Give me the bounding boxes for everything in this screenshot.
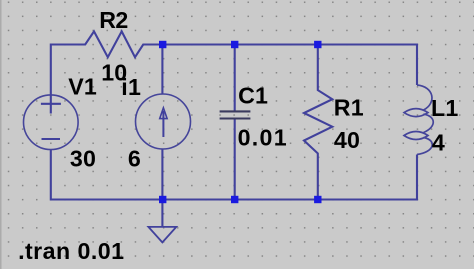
svg-text:0.01: 0.01: [238, 124, 288, 150]
svg-text:40: 40: [334, 127, 360, 153]
svg-text:.tran 0.01: .tran 0.01: [18, 238, 124, 264]
svg-text:V1: V1: [68, 74, 97, 100]
svg-text:C1: C1: [238, 82, 268, 108]
svg-text:R2: R2: [99, 7, 128, 33]
svg-text:6: 6: [128, 145, 141, 171]
svg-text:30: 30: [70, 145, 96, 171]
svg-text:R1: R1: [334, 95, 364, 121]
svg-text:i1: i1: [121, 74, 141, 100]
svg-text:4: 4: [432, 130, 445, 156]
svg-text:L1: L1: [431, 95, 458, 121]
